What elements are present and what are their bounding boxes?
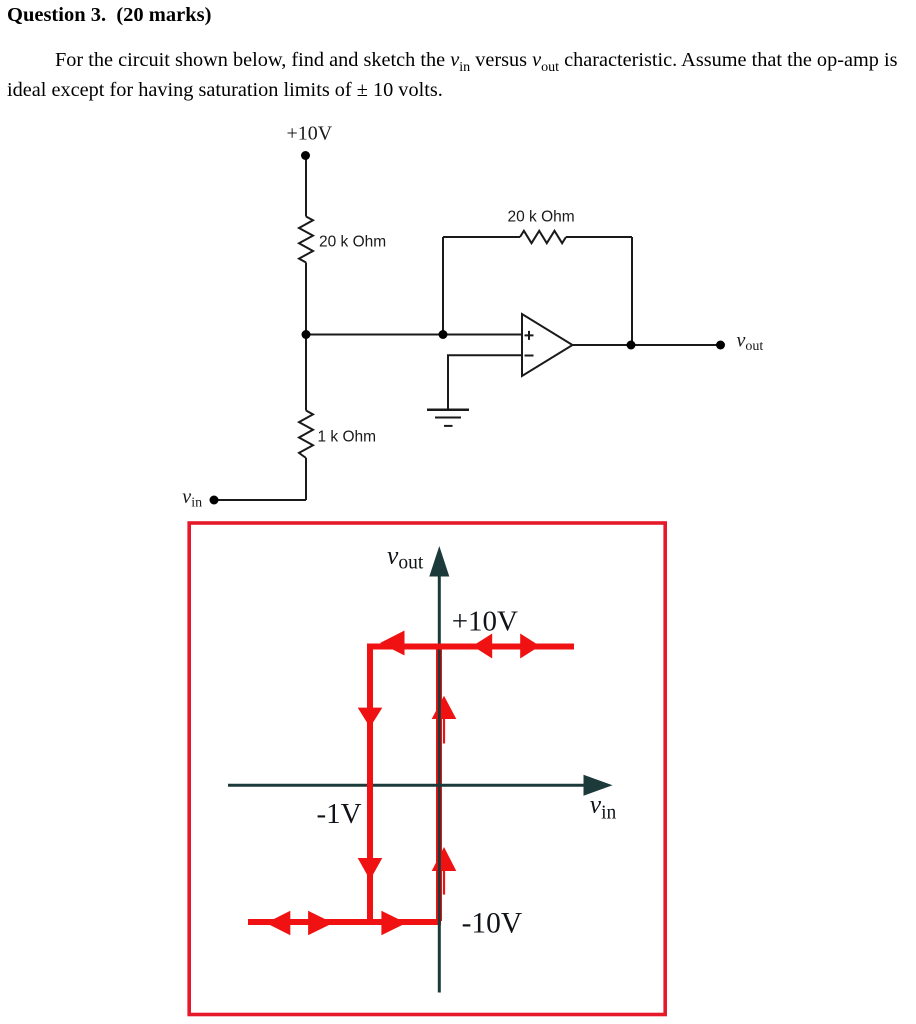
- wire node to op-amp + input: [306, 334, 522, 336]
- svg-text:vout: vout: [737, 330, 764, 355]
- wire feedback left vertical: [442, 237, 444, 335]
- arrow down (lower, -1V line): [358, 858, 383, 880]
- op-amp minus sign: [525, 355, 534, 357]
- node A dot (divider/op-amp junction): [302, 330, 311, 339]
- vin axis line: [228, 784, 586, 787]
- op-amp minus input wire: [448, 355, 522, 409]
- red transition line at vin=0 (up): [436, 648, 442, 921]
- red top line vout=+10: [372, 644, 574, 650]
- svg-text:1 k Ohm: 1 k Ohm: [318, 429, 377, 446]
- op-amp U1 triangle: [522, 314, 573, 376]
- wire vin horizontal: [215, 499, 306, 501]
- arrow left (bottom line, left of -1): [266, 911, 290, 935]
- wire feedback top left: [443, 236, 520, 238]
- title: [7, 5, 211, 26]
- arrow right (bottom line, left of -1): [308, 911, 333, 935]
- terminal dot +10V: [301, 151, 310, 160]
- arrow up stem (upper): [443, 719, 445, 744]
- node B dot (feedback junction): [439, 330, 448, 339]
- arrow right (bottom line, between -1 and 0): [381, 911, 406, 935]
- vin axis arrowhead: [584, 775, 613, 796]
- ground bar 1: [427, 408, 469, 411]
- wire feedback top right: [566, 236, 632, 238]
- wire R1 to node: [305, 263, 307, 335]
- svg-text:vout: vout: [387, 541, 424, 574]
- paragraph line 2: [7, 80, 443, 100]
- svg-text:20 k Ohm: 20 k Ohm: [319, 234, 386, 251]
- wire feedback right vertical: [631, 237, 633, 345]
- arrow up (lower, 0 line): [432, 847, 457, 871]
- arrow down (upper, -1V line): [358, 708, 383, 728]
- wire output: [573, 344, 721, 346]
- arrow left (top line, right of 0): [473, 634, 493, 659]
- ground bar 3: [444, 425, 453, 427]
- ground bar 2: [435, 417, 461, 419]
- node C dot (output/feedback): [627, 341, 636, 350]
- terminal dot vin: [210, 496, 219, 505]
- arrow up stem (lower): [443, 871, 445, 895]
- vout axis arrowhead: [429, 546, 449, 577]
- vout axis line: [438, 560, 441, 993]
- svg-text:+10V: +10V: [452, 606, 518, 638]
- resistor R3 20k feedback zigzag: [520, 231, 566, 243]
- arrow up (upper, 0 line): [432, 696, 457, 719]
- svg-text:vin: vin: [182, 486, 202, 511]
- arrow right (top line, right of 0): [520, 634, 540, 659]
- graph frame box: [189, 523, 665, 1015]
- red bottom line vout=-10: [248, 919, 441, 925]
- arrow left (top line, between -1 and 0): [380, 631, 405, 656]
- svg-text:20 k Ohm: 20 k Ohm: [508, 209, 575, 226]
- svg-text:-1V: -1V: [317, 798, 362, 830]
- paragraph line 1: [55, 50, 897, 70]
- wire +10V stem: [305, 156, 307, 217]
- wire R2 down: [305, 458, 307, 500]
- svg-text:vin: vin: [590, 790, 617, 824]
- svg-text:+10V: +10V: [287, 123, 333, 145]
- red transition line at vin=-1 (down): [367, 644, 373, 923]
- svg-text:-10V: -10V: [462, 908, 523, 940]
- terminal dot vout: [716, 341, 725, 350]
- op-amp plus sign: [525, 331, 534, 340]
- resistor R2 1k zigzag: [299, 411, 313, 459]
- resistor R1 20k zigzag: [299, 217, 313, 263]
- wire node to R2: [305, 335, 307, 411]
